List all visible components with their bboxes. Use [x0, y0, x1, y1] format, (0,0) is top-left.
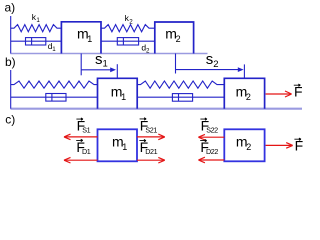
svg-text:F: F	[295, 138, 304, 154]
svg-text:s: s	[206, 51, 214, 68]
svg-text:2: 2	[129, 18, 133, 25]
svg-text:2: 2	[246, 92, 251, 102]
svg-text:2: 2	[213, 59, 218, 70]
svg-text:2: 2	[246, 142, 251, 152]
svg-text:c): c)	[5, 112, 15, 126]
svg-text:D1: D1	[82, 147, 91, 156]
svg-text:s: s	[95, 51, 103, 68]
svg-text:1: 1	[87, 34, 92, 44]
svg-text:1: 1	[121, 92, 126, 102]
svg-text:S22: S22	[206, 126, 218, 135]
svg-text:D21: D21	[145, 147, 157, 156]
svg-text:2: 2	[176, 34, 181, 44]
svg-text:1: 1	[52, 46, 56, 53]
svg-text:1: 1	[122, 142, 127, 152]
svg-text:2: 2	[146, 48, 150, 55]
svg-text:a): a)	[5, 1, 16, 15]
svg-text:D22: D22	[206, 147, 218, 156]
svg-text:1: 1	[36, 17, 40, 24]
svg-text:S1: S1	[82, 126, 90, 135]
svg-text:1: 1	[103, 59, 108, 70]
svg-text:F: F	[294, 84, 303, 100]
svg-text:S21: S21	[145, 125, 157, 134]
svg-text:b): b)	[5, 55, 16, 69]
